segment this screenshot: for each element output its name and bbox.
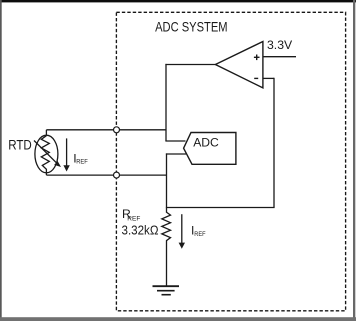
svg-text:REF: REF: [194, 231, 205, 238]
svg-text:ADC SYSTEM: ADC SYSTEM: [155, 19, 228, 35]
svg-text:REF: REF: [127, 215, 140, 222]
svg-text:REF: REF: [76, 158, 88, 165]
svg-text:3.32kΩ: 3.32kΩ: [122, 223, 159, 237]
svg-text:ADC: ADC: [193, 136, 219, 150]
svg-text:3.3V: 3.3V: [267, 38, 293, 52]
svg-text:RTD: RTD: [8, 138, 32, 153]
